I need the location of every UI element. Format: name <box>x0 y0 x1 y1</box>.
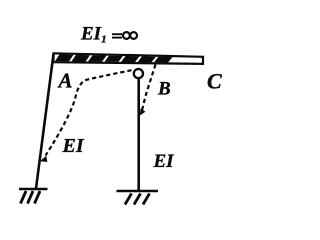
svg-text:B: B <box>157 79 171 100</box>
column B-base (right, solid) <box>137 79 140 191</box>
deflected shape of left column and beam (dashed) <box>46 70 132 155</box>
infinity symbol <box>123 32 137 39</box>
hinge circle at top of right column <box>134 69 143 78</box>
ground support right <box>117 191 159 205</box>
arrowhead on right dashed curve <box>140 108 146 115</box>
svg-text:A: A <box>57 69 73 93</box>
deflected shape of right column (dashed) <box>142 65 156 111</box>
column A-base (left, solid) <box>36 54 54 189</box>
svg-text:C: C <box>207 69 222 94</box>
svg-text:EI: EI <box>153 151 175 172</box>
svg-text:EI: EI <box>62 135 85 157</box>
beam ABC (rigid, hatched) <box>54 53 204 64</box>
equals sign of EI1=inf <box>112 34 122 37</box>
ground support left <box>19 189 48 204</box>
svg-text:EI1: EI1 <box>80 24 107 46</box>
beam hatching <box>55 54 173 62</box>
arrowhead on left dashed curve <box>40 156 48 162</box>
